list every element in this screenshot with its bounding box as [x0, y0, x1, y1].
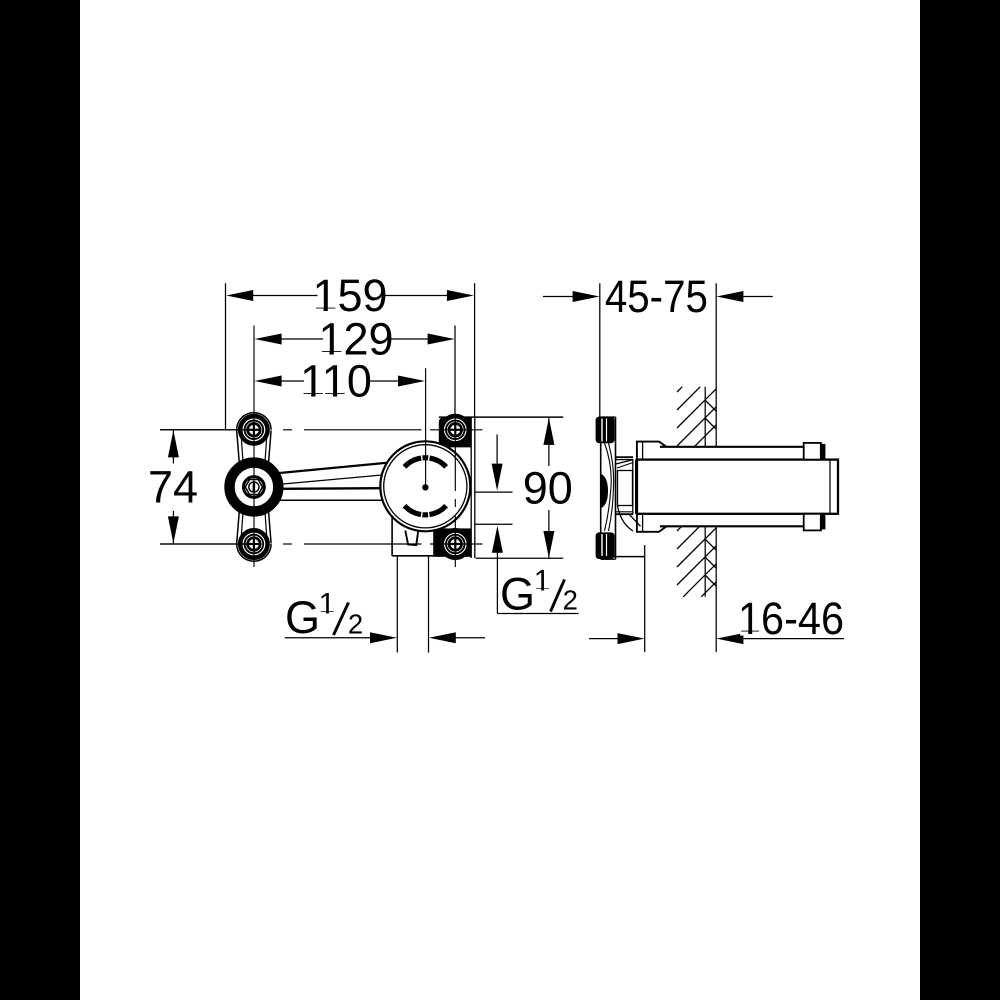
svg-text:2: 2 — [348, 608, 363, 639]
cartridge dashed arc top — [405, 458, 447, 467]
centerline horizontal top bolts — [160, 429, 482, 431]
dimension G 1/2 side port — [492, 435, 579, 620]
side view: lower tube line — [660, 525, 804, 527]
svg-text:16-46: 16-46 — [738, 593, 844, 644]
hub screw circle — [249, 482, 259, 492]
side view: bracket top black tab — [596, 417, 615, 444]
bottom outlet block (front view) — [391, 517, 393, 556]
svg-text:G: G — [500, 568, 535, 619]
svg-text:45-75: 45-75 — [605, 271, 708, 322]
dimension 129 — [255, 314, 455, 418]
body end cap line — [829, 460, 831, 514]
dimension 45-75 — [543, 271, 773, 652]
mixer body circle (front view) — [380, 441, 470, 531]
top-right bolt pad — [439, 417, 471, 448]
wall hatching bottom — [677, 526, 716, 597]
bolt top-left — [240, 416, 267, 443]
dimension 110 — [255, 356, 425, 407]
screw slot — [253, 482, 256, 492]
side view: upper tube line — [660, 446, 804, 448]
side view: transition cone — [597, 457, 645, 556]
centerline vertical right bolt column — [454, 417, 456, 567]
cartridge dashed arc bottom — [405, 506, 447, 515]
side view: lower flange — [637, 514, 667, 532]
connecting arm (front view) — [280, 463, 388, 501]
right mounting plate edges (front view) — [470, 417, 472, 558]
body left thick edge — [635, 460, 638, 514]
hex nut — [245, 480, 262, 495]
side view: outlet bottom edge — [597, 556, 645, 558]
side view: top-right tab — [804, 443, 821, 460]
svg-text:90: 90 — [523, 462, 573, 513]
side outlet port lines — [475, 491, 513, 493]
centerline vertical left bolt column / 129-110 left extension — [253, 326, 255, 568]
wall inner face line bottom — [704, 526, 706, 597]
svg-text:1: 1 — [534, 565, 551, 598]
bolt bottom-left — [240, 530, 267, 557]
90-dim bottom extension line — [476, 557, 564, 559]
centerline horizontal bottom bolts — [160, 543, 482, 545]
centerline vertical body circle / 110 right extension — [425, 368, 427, 487]
side view: hub bulge black blob — [602, 474, 609, 508]
dimension 16-46 — [589, 545, 844, 652]
dimension 90 — [523, 418, 573, 558]
right plate top edge / 90-dim top extension line — [439, 416, 563, 418]
side view: main body rectangle — [637, 460, 838, 514]
bolt bottom-right — [444, 533, 467, 556]
side view: bracket bottom black tab — [596, 532, 615, 559]
svg-text:110: 110 — [300, 356, 372, 407]
svg-text:1: 1 — [319, 588, 336, 621]
hub black ring — [230, 463, 279, 512]
svg-text:2: 2 — [563, 584, 578, 615]
alignment tab below body — [405, 531, 418, 546]
svg-text:G: G — [285, 592, 320, 643]
wall hatching top — [677, 387, 716, 447]
side view: bracket plate strip — [601, 417, 616, 559]
svg-text:74: 74 — [148, 462, 198, 513]
bottom-right bolt pad — [433, 528, 471, 556]
dimension 74 — [148, 430, 257, 544]
side view: upper flange — [637, 442, 667, 460]
side view: bottom-right tab — [804, 514, 821, 531]
mounting bracket plate (front view, stadium outline) — [237, 413, 271, 562]
bolt top-right — [444, 418, 467, 441]
center dot — [422, 484, 428, 490]
dimension G 1/2 bottom (front view) — [285, 556, 485, 652]
wall inner face line top — [704, 387, 706, 447]
dimension 159 — [226, 270, 475, 430]
hub inner ring — [244, 477, 265, 498]
